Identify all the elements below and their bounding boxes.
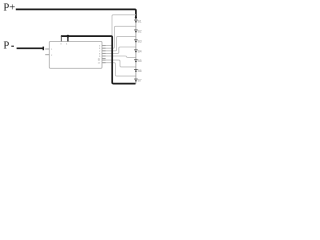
sense wire W2 — [102, 26, 136, 48]
pin stub left pin 1 — [45, 48, 49, 50]
pin stub right 4 — [102, 52, 106, 54]
battery cell B6 — [134, 69, 138, 71]
svg-text:B1: B1 — [138, 20, 142, 24]
battery bus vertical — [135, 18, 137, 84]
IC U1 box — [49, 41, 102, 68]
wire thick pack-bottom: from IC top pins right and down to bus bottom — [61, 36, 136, 84]
sense wire W1 (pin 5 to pack top tap) — [102, 15, 136, 46]
pin stub right 8 — [102, 62, 106, 64]
sense wire W5 — [102, 56, 136, 57]
pin stub right 1 — [102, 45, 106, 47]
junction dot on pack-bottom wire — [67, 35, 70, 38]
svg-text:B4: B4 — [138, 49, 142, 53]
battery cell B4 — [134, 50, 138, 52]
svg-text:B2: B2 — [138, 29, 142, 33]
battery cell B3 — [134, 40, 138, 42]
wire P- to connector terminal — [17, 47, 44, 49]
terminal end bar of P- wire — [42, 47, 44, 51]
pin stub left pin 2 — [45, 54, 49, 56]
battery cell B7 — [134, 79, 138, 81]
svg-text:B6: B6 — [138, 69, 142, 73]
sense wire W6 — [102, 60, 136, 67]
pin stub right 2 — [102, 47, 106, 49]
sense wire W7 — [102, 63, 136, 76]
wire P+ rail to battery bus — [16, 9, 136, 17]
junction dot bus top — [135, 17, 137, 19]
sense wire W4 — [102, 47, 136, 53]
svg-text:B5: B5 — [138, 59, 142, 63]
battery cell B5 — [134, 60, 138, 62]
sense wire W3 — [102, 36, 136, 50]
battery cell B2 — [134, 30, 138, 32]
wire top pin stub B — [67, 36, 69, 41]
svg-text:B3: B3 — [138, 39, 142, 43]
pin stub right 3 — [102, 50, 106, 52]
wire top pin stub A — [60, 36, 62, 41]
svg-text:P: P — [3, 41, 9, 52]
svg-text:B7: B7 — [138, 79, 142, 83]
pin stub right 7 — [102, 59, 106, 61]
pin stub right 6 (NC) — [102, 58, 106, 60]
battery cell B1 — [134, 20, 138, 22]
minus dash of P- — [11, 45, 14, 47]
svg-text:P+: P+ — [3, 3, 15, 14]
pin stub right 5 — [102, 55, 106, 57]
